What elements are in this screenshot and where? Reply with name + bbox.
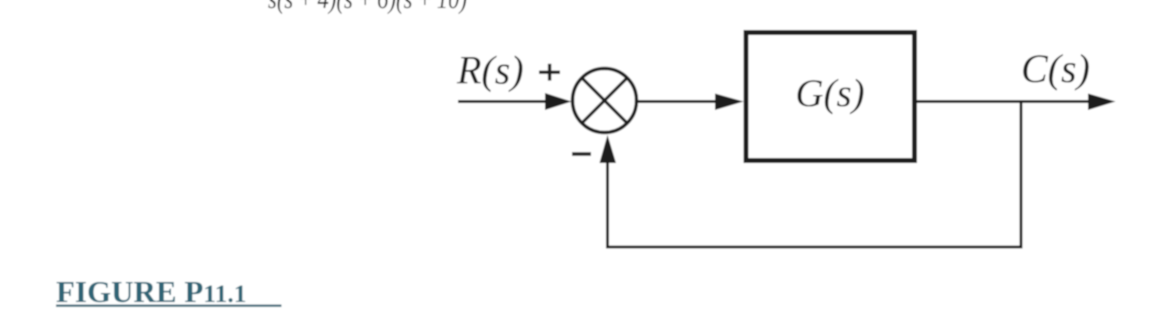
wire: feedback bottom horizontal [606,246,1023,249]
arrowhead into block [715,94,744,111]
wire: block output to C(s) arrow [917,100,1091,103]
svg-text:s(s + 4)(s + 6)(s + 10): s(s + 4)(s + 6)(s + 10) [268,0,467,15]
wire: feedback takeoff vertical at junction [1020,102,1023,249]
arrowhead into summer bottom [600,135,617,163]
svg-text:R(s): R(s) [456,48,524,93]
svg-text:C(s): C(s) [1021,46,1090,91]
minus sign at summer feedback input [572,152,591,156]
block G(s) [746,33,915,161]
arrowhead output C(s) [1088,94,1116,111]
wire: input line R(s) to summer [458,100,550,103]
wire: summer to G(s) block [636,100,720,103]
svg-text:FIGURE P11.1: FIGURE P11.1 [56,274,246,309]
summing junction (circle with X) [573,69,637,133]
arrowhead into summer [545,93,572,110]
svg-text:G(s): G(s) [795,72,864,115]
wire: feedback left vertical up to summer [606,160,609,249]
plus sign at summing junction [539,71,560,74]
